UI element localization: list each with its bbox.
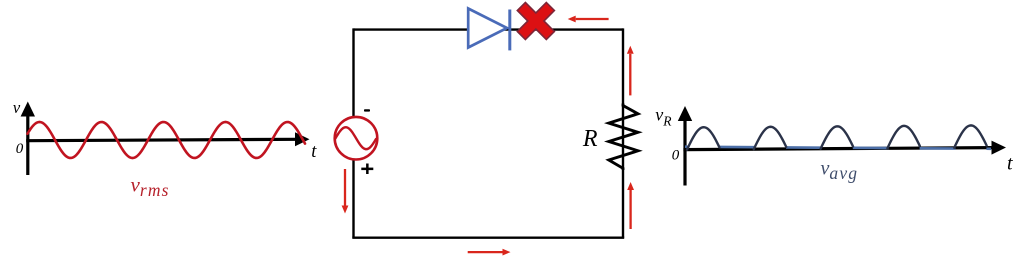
source minus label (364, 109, 370, 111)
right graph t axis (683, 141, 1006, 155)
wire left (352, 28, 354, 237)
svg-text:0: 0 (16, 141, 24, 157)
wire bottom (352, 236, 624, 238)
current arrow right upper (up) (627, 46, 634, 96)
left graph t axis (26, 132, 309, 146)
right graph v axis (678, 106, 692, 186)
wire top (354, 28, 624, 30)
svg-text:v: v (13, 98, 21, 117)
left graph v axis (21, 102, 35, 176)
diode D1 cathode bar (508, 10, 511, 51)
resistor R1 (609, 104, 638, 171)
rectified output bumps (687, 125, 987, 149)
svg-text:0: 0 (672, 148, 680, 164)
blocked current X marker (517, 2, 554, 39)
source plus label (361, 164, 373, 175)
svg-text:vrms: vrms (131, 173, 170, 201)
svg-text:vavg: vavg (821, 158, 859, 184)
svg-text:t: t (1007, 153, 1013, 175)
svg-text:t: t (311, 142, 317, 162)
AC source V1 (335, 117, 378, 160)
current arrow left (down) (342, 169, 349, 214)
input sine wave (28, 122, 306, 158)
v_avg line (685, 147, 991, 149)
current arrow bottom (right) (468, 249, 511, 256)
svg-text:R: R (582, 126, 598, 152)
current arrow top (left) (568, 16, 609, 23)
diode D1 triangle (468, 9, 507, 48)
wire right (622, 28, 624, 237)
current arrow right lower (up) (627, 182, 634, 229)
svg-text:vR: vR (655, 105, 672, 129)
